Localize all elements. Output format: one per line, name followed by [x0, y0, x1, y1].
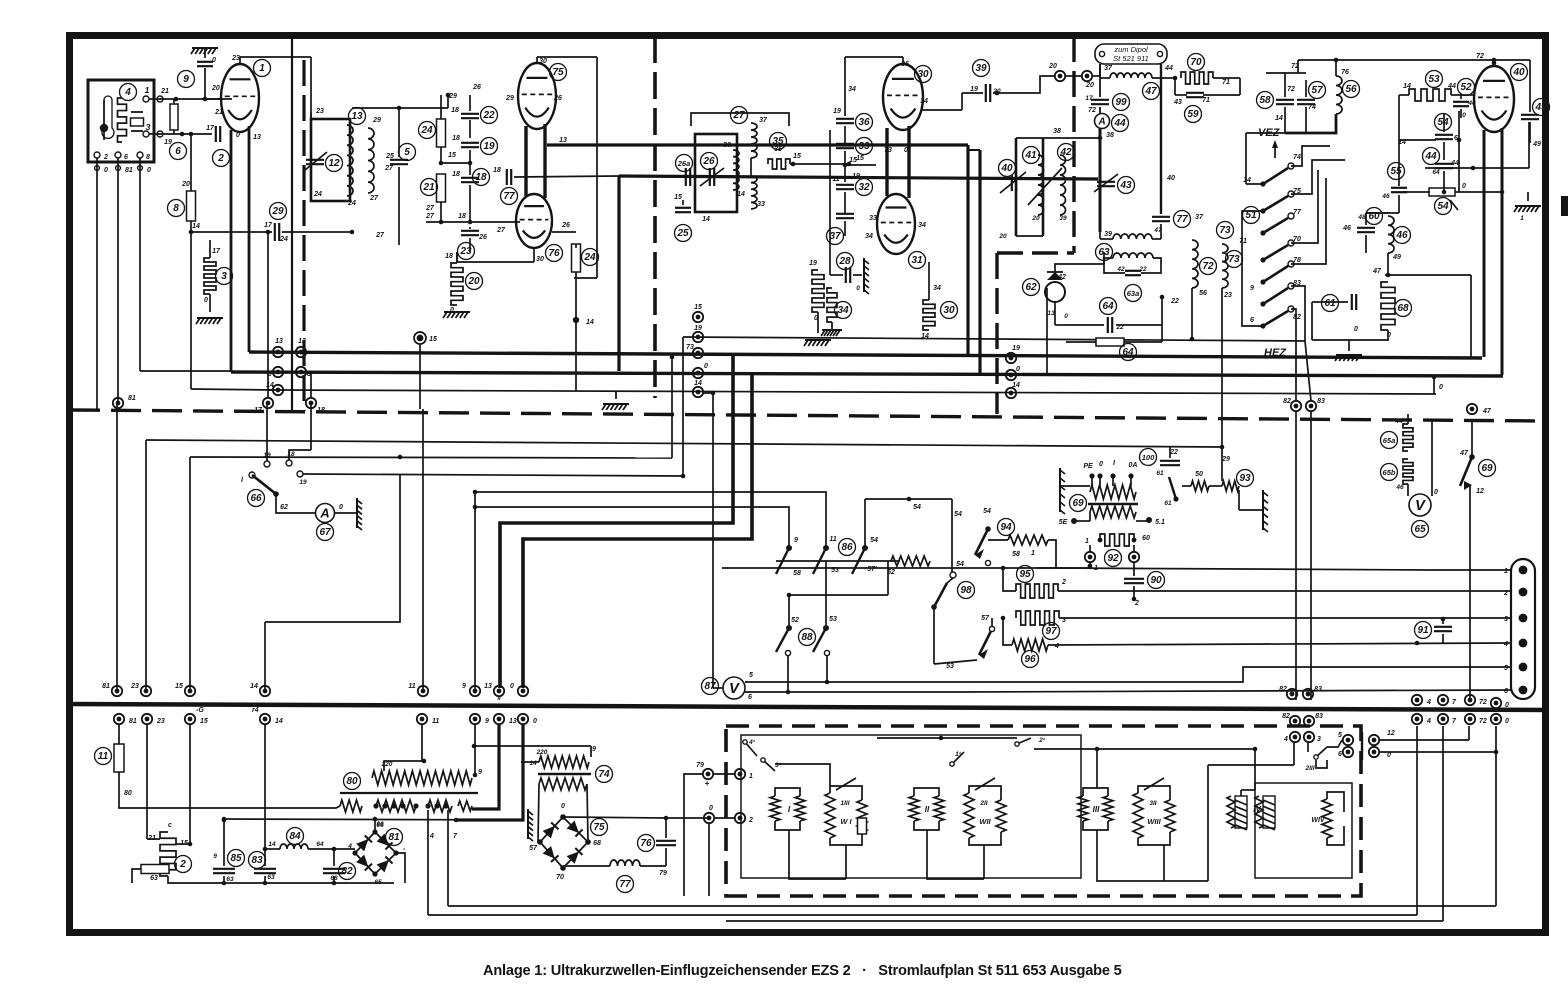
svg-text:24: 24 [279, 236, 288, 243]
svg-text:5: 5 [1338, 732, 1342, 739]
switch 57 contact [989, 626, 994, 631]
svg-text:9: 9 [592, 746, 596, 753]
svg-text:14: 14 [192, 223, 200, 230]
ground res 19 [805, 339, 831, 341]
ref 77a [501, 188, 518, 205]
terminal 15 row1 [185, 686, 195, 696]
5A terminal [1146, 517, 1152, 523]
capacitor 76 [656, 840, 676, 842]
capacitor 44 [1435, 163, 1453, 165]
svg-text:1: 1 [145, 85, 150, 95]
svg-text:0: 0 [212, 57, 216, 64]
svg-text:15: 15 [856, 155, 864, 162]
svg-text:37: 37 [1104, 65, 1113, 72]
svg-text:V: V [1415, 498, 1426, 514]
switch 2III [1316, 747, 1327, 757]
wire 65 to V [1407, 484, 1409, 496]
svg-text:1: 1 [259, 63, 265, 74]
svg-text:14: 14 [275, 718, 283, 725]
capacitor 83 [254, 868, 276, 870]
terminal 2 in [735, 813, 745, 823]
long wire 921 [726, 920, 1443, 922]
capacitor 26a [685, 168, 687, 186]
ref 25 [675, 225, 692, 242]
terminal 0 right [1491, 698, 1501, 708]
capacitor 18 [461, 177, 479, 179]
svg-text:21: 21 [214, 109, 223, 116]
pin 0 below [95, 166, 100, 171]
svg-text:5: 5 [1504, 665, 1508, 672]
wire 15 mid vert [419, 344, 421, 409]
svg-text:54: 54 [954, 511, 962, 518]
ground 54 [1515, 205, 1541, 207]
junction 457 [398, 455, 403, 460]
wire V65 right [1431, 421, 1433, 496]
ref 40 [999, 160, 1016, 177]
switch 88 lever 53 [813, 628, 826, 652]
capacitor inside box 4 [131, 118, 144, 126]
ref 75 [550, 64, 567, 81]
svg-text:12: 12 [1387, 730, 1395, 737]
svg-text:64: 64 [316, 841, 324, 848]
wire top 29 [352, 107, 448, 109]
ref 63a [1125, 285, 1142, 302]
ref 94 [998, 519, 1015, 536]
wire 29 up [447, 95, 449, 108]
ground HEZ area [1336, 354, 1362, 356]
svg-text:70: 70 [1293, 236, 1301, 243]
resistor 68 meander [1381, 282, 1395, 330]
ref 18 [473, 169, 490, 186]
wire pin1 to node [157, 96, 163, 102]
A meter 44 [1095, 114, 1110, 129]
ref 36 [856, 114, 873, 131]
ref 55 [1388, 163, 1405, 180]
svg-text:44: 44 [1113, 118, 1126, 129]
svg-text:14: 14 [1243, 177, 1251, 184]
5E terminal [1071, 518, 1077, 524]
ref 46 [1394, 227, 1411, 244]
wire 0 down [708, 824, 710, 896]
terminal 11 row1 [418, 686, 428, 696]
terminal 13 row1 [494, 686, 504, 696]
wire node1 right [176, 98, 232, 100]
zigzag contact inside box 4 [118, 98, 127, 142]
svg-text:37: 37 [1195, 214, 1204, 221]
wire pin1 [1430, 569, 1511, 571]
wire mid 15 [441, 162, 470, 164]
thick wire 13 right [547, 143, 968, 146]
resistor 19-0 meander [812, 270, 824, 312]
ref 59 [1185, 106, 1202, 123]
capacitor 22-100 [1160, 460, 1180, 462]
ref 19 [481, 138, 498, 155]
section separator dashed line (top/middle) [70, 410, 1545, 421]
svg-text:54: 54 [956, 561, 964, 568]
svg-text:32: 32 [858, 182, 870, 193]
wire 83row3 down [1307, 742, 1309, 752]
capacitor 15-25 [675, 207, 691, 209]
wire 82row3 down [1293, 742, 1295, 765]
svg-text:95: 95 [1019, 569, 1031, 580]
zum Dipol box [1095, 44, 1167, 64]
terminal 7 right [1438, 695, 1448, 705]
svg-text:0: 0 [1354, 326, 1358, 333]
terminal 0 row2 [518, 714, 528, 724]
svg-text:4: 4 [124, 87, 131, 98]
svg-text:80: 80 [346, 776, 358, 787]
resistor 95 meander [1016, 584, 1058, 598]
terminal 14 row2 [260, 714, 270, 724]
svg-text:97: 97 [1045, 626, 1057, 637]
inner solid box right [1255, 783, 1352, 878]
wire 17 up [267, 232, 269, 398]
svg-text:0: 0 [1016, 366, 1020, 373]
wire lamp to coil [1055, 252, 1104, 272]
switch 86 levers [776, 548, 789, 574]
svg-text:73: 73 [1228, 254, 1240, 265]
resistor 50 zig [1191, 481, 1209, 491]
svg-text:+: + [705, 779, 710, 788]
wire top right loop [691, 113, 789, 126]
svg-text:72: 72 [1479, 699, 1487, 706]
coil 73 [1222, 244, 1228, 288]
capacitor 28 [845, 267, 847, 283]
terminal 8 right [296, 367, 306, 377]
wire tube anode right [921, 109, 962, 111]
svg-text:12: 12 [328, 158, 340, 169]
tube 1 lead left [230, 130, 233, 372]
wire node 47 loop [1385, 274, 1471, 276]
capacitor 57 [1297, 99, 1315, 101]
wire 20 terminals [1066, 75, 1081, 77]
ref 90 [1148, 572, 1165, 589]
coil IV hatched [1235, 796, 1247, 828]
ref 74 [596, 766, 613, 783]
terminal block 5/12 [1343, 735, 1353, 745]
svg-text:0: 0 [510, 683, 514, 690]
group II bottom wire [927, 830, 984, 879]
resistor 52 zig [891, 556, 930, 566]
resistor 94 zig [1008, 535, 1048, 545]
wire 883 row [168, 882, 405, 884]
svg-text:81: 81 [102, 683, 110, 690]
svg-text:46: 46 [1381, 193, 1390, 200]
ground resistor 3 [197, 317, 223, 319]
core bar 89 [1088, 503, 1138, 506]
block crossbar [1361, 732, 1363, 760]
wire coil27 [750, 158, 752, 176]
resistor 89 zig top [1090, 485, 1136, 499]
svg-text:17: 17 [1085, 95, 1093, 102]
svg-text:33: 33 [869, 215, 877, 222]
terminal 13 row2 [494, 714, 504, 724]
bottom dashed box (keying unit) [726, 726, 1361, 896]
wire res95 right [1058, 590, 1511, 592]
svg-text:14: 14 [586, 319, 594, 326]
thick antenna line [1099, 128, 1102, 232]
wire coil56 down thick [1285, 114, 1336, 133]
coil73 drop [1221, 288, 1223, 447]
svg-text:92: 92 [1107, 553, 1119, 564]
transformer 80 primary zig [372, 771, 472, 785]
relay group W I zigs [825, 793, 835, 838]
svg-text:56: 56 [1199, 290, 1207, 297]
svg-text:28: 28 [838, 256, 851, 267]
svg-text:24: 24 [420, 125, 433, 136]
ref 1 [254, 60, 271, 77]
capacitor 33 [836, 143, 854, 145]
switch 51 wire 82 [1291, 309, 1296, 401]
node 14 [573, 317, 579, 323]
main bus B thick [231, 372, 1503, 376]
hatch wall 93 [1262, 490, 1264, 530]
wire g2 176 [514, 176, 619, 177]
bus line 337 [683, 337, 1305, 341]
svg-text:0: 0 [561, 803, 565, 810]
wire res96 left [1003, 618, 1012, 645]
wire 14 down to terminal [190, 232, 192, 389]
ref 37 [827, 228, 844, 245]
wire 12 row [1379, 739, 1469, 741]
svg-text:19: 19 [852, 173, 860, 180]
wire 2I right [1034, 748, 1255, 750]
wire left col down [223, 819, 225, 866]
svg-text:15: 15 [674, 194, 682, 201]
ref 30 [915, 66, 932, 83]
terminal 17 [263, 398, 273, 408]
svg-text:42: 42 [1057, 274, 1066, 281]
coil 63a [1113, 253, 1153, 258]
vertical 1459 [1458, 111, 1460, 192]
svg-text:27: 27 [369, 195, 379, 202]
svg-text:70: 70 [1190, 57, 1202, 68]
svg-text:71: 71 [1222, 79, 1230, 86]
resistor horizontal body [141, 865, 169, 874]
switch 98 contact [950, 572, 956, 578]
svg-text:15: 15 [200, 718, 208, 725]
svg-text:47: 47 [1153, 227, 1162, 234]
svg-text:0: 0 [1064, 313, 1068, 320]
svg-text:72: 72 [1202, 261, 1214, 272]
resistor 20 meander [451, 263, 463, 305]
ref 98 [958, 582, 975, 599]
wire 82 83 mid [1295, 411, 1297, 700]
svg-text:0: 0 [236, 132, 240, 139]
variable cap 43 [1097, 181, 1115, 183]
svg-text:WIII: WIII [1147, 817, 1161, 826]
wire 89 left [1060, 485, 1090, 487]
svg-text:61: 61 [1164, 500, 1172, 507]
svg-text:23: 23 [315, 108, 324, 115]
wire 66 to A meter [276, 494, 316, 513]
transformer 74 zig bottom [539, 778, 587, 790]
capacitor 26b [461, 230, 479, 232]
svg-text:6: 6 [748, 694, 752, 701]
wire 92 [1098, 538, 1103, 543]
svg-text:82: 82 [1279, 686, 1287, 693]
svg-text:9: 9 [213, 853, 217, 860]
switch 94 contact [985, 560, 990, 565]
ref 65 [1412, 521, 1429, 538]
ref 24a [419, 122, 436, 139]
ref 92 [1105, 550, 1122, 567]
svg-text:27: 27 [425, 205, 435, 212]
svg-text:2: 2 [1503, 590, 1508, 597]
svg-text:20: 20 [1085, 82, 1094, 89]
wire 2III hook [1327, 740, 1342, 747]
pin 3 of box 4 [143, 131, 149, 137]
wire res h [132, 869, 141, 883]
ref 63 [1096, 244, 1113, 261]
svg-text:79: 79 [659, 870, 667, 877]
wire node3 right to cap 2 [182, 133, 212, 135]
relay group 3II zigzags [1133, 793, 1143, 838]
group I bottom wire [789, 830, 846, 879]
coil 47 horizontal [1110, 73, 1152, 78]
terminal 19 col [693, 332, 703, 342]
svg-text:14: 14 [1012, 382, 1020, 389]
terminal 1 in [735, 769, 745, 779]
svg-text:27: 27 [732, 110, 745, 121]
pin 6 of box 4 [115, 152, 121, 158]
group I box wires [775, 788, 800, 796]
bus vertical 752 [523, 375, 752, 688]
svg-text:18: 18 [445, 253, 453, 260]
variable capacitor 26 [709, 168, 711, 186]
terminal 13 right [296, 347, 306, 357]
wire 92 down [1089, 562, 1091, 568]
svg-text:18: 18 [451, 107, 459, 114]
switch 57 lever [979, 629, 992, 655]
quartz lamp 62 [1047, 272, 1063, 280]
wire 26 tube76 [552, 231, 576, 233]
wire res97 right [1059, 617, 1511, 619]
wire 52 to tube [1451, 94, 1461, 96]
ref 97 [1043, 623, 1060, 640]
ref 21 [421, 179, 438, 196]
svg-text:93: 93 [1239, 473, 1251, 484]
svg-text:58: 58 [1012, 551, 1020, 558]
vertical 683 from terminal 19 [682, 337, 684, 477]
svg-text:4: 4 [347, 843, 352, 850]
ref 85 [228, 850, 245, 867]
svg-text:19: 19 [1012, 345, 1020, 352]
wire anode right down [596, 145, 598, 278]
svg-text:1III: 1III [840, 800, 849, 807]
wire 57 to 645 [991, 618, 993, 626]
svg-text:44: 44 [1447, 83, 1456, 90]
svg-text:17: 17 [254, 407, 263, 414]
resistor 6 vertical [170, 104, 178, 130]
svg-text:44: 44 [1164, 65, 1173, 72]
ref 29 [270, 203, 287, 220]
svg-text:4: 4 [1426, 718, 1431, 725]
svg-text:9: 9 [485, 718, 489, 725]
transformer 74 zig top [539, 756, 589, 768]
thick vertical 968 [966, 145, 969, 357]
choke coil 84 [280, 844, 308, 849]
wire 14 mid [264, 622, 266, 689]
resistor 53 [1409, 89, 1451, 101]
group III bottom wire [1097, 830, 1164, 881]
svg-text:19: 19 [970, 86, 978, 93]
svg-text:6: 6 [1338, 751, 1342, 758]
svg-text:1: 1 [1504, 568, 1508, 575]
wire res94 [988, 539, 1008, 541]
svg-text:54: 54 [1437, 117, 1449, 128]
wire 23 down [146, 724, 148, 839]
svg-text:57: 57 [529, 845, 538, 852]
connector pin 4 [1519, 639, 1528, 648]
ref 84 [287, 828, 304, 845]
svg-text:3II: 3II [1149, 800, 1156, 807]
switch bank 51 contact 75 [1263, 196, 1288, 211]
svg-text:2: 2 [179, 859, 186, 870]
wire V 6 [745, 691, 788, 693]
wire coil84 right [308, 848, 355, 850]
terminal 20a [1055, 71, 1065, 81]
ref 57 [1309, 82, 1326, 99]
ref 4 [120, 84, 137, 101]
resistor 64 body [1096, 338, 1124, 346]
variable capacitor 12 [306, 159, 324, 161]
vertical dashed partition right upper [1072, 36, 1075, 253]
svg-text:75: 75 [593, 822, 605, 833]
switch bank 51 contact 70 [1263, 245, 1288, 260]
switch 88 lever 52 [776, 628, 789, 652]
wire contact II2 right [303, 474, 683, 476]
svg-text:83: 83 [1317, 398, 1325, 405]
terminal 20b [1082, 71, 1092, 81]
terminal 13 left [273, 347, 283, 357]
svg-text:38: 38 [1106, 132, 1114, 139]
wire 79 left [684, 774, 703, 896]
svg-text:22: 22 [1138, 266, 1147, 273]
main bus A thick [249, 352, 1482, 358]
svg-text:3¹: 3¹ [775, 762, 782, 769]
switch 66 contact II2 [297, 471, 303, 477]
ref 31 [909, 252, 926, 269]
terminal row3 right [1412, 714, 1422, 724]
wire res64 [1066, 341, 1096, 343]
svg-text:33: 33 [858, 141, 870, 152]
small rect WI [858, 818, 867, 834]
wire 53 left [1399, 94, 1409, 96]
wire 82row3 long [1208, 764, 1294, 766]
ref 88 [799, 629, 816, 646]
svg-text:26: 26 [561, 222, 570, 229]
svg-text:26: 26 [478, 234, 487, 241]
svg-text:23: 23 [1223, 292, 1232, 299]
wire 49 down [1528, 122, 1530, 168]
svg-text:14: 14 [694, 380, 702, 387]
coil 13b [368, 128, 374, 193]
svg-text:76: 76 [640, 838, 652, 849]
svg-text:18: 18 [493, 167, 501, 174]
svg-text:0: 0 [1387, 752, 1391, 759]
ref 73b [1226, 251, 1243, 268]
switch bank 51 contact 83 [1263, 288, 1288, 304]
capacitor 61 [1351, 294, 1353, 310]
capacitor 99 [1091, 99, 1109, 101]
svg-text:49: 49 [1532, 141, 1541, 148]
bridge75 node right [585, 839, 591, 845]
VEZ arrow [1274, 142, 1276, 158]
wire 0 down thick [456, 724, 523, 820]
svg-text:60: 60 [1142, 535, 1150, 542]
svg-text:13: 13 [509, 718, 517, 725]
